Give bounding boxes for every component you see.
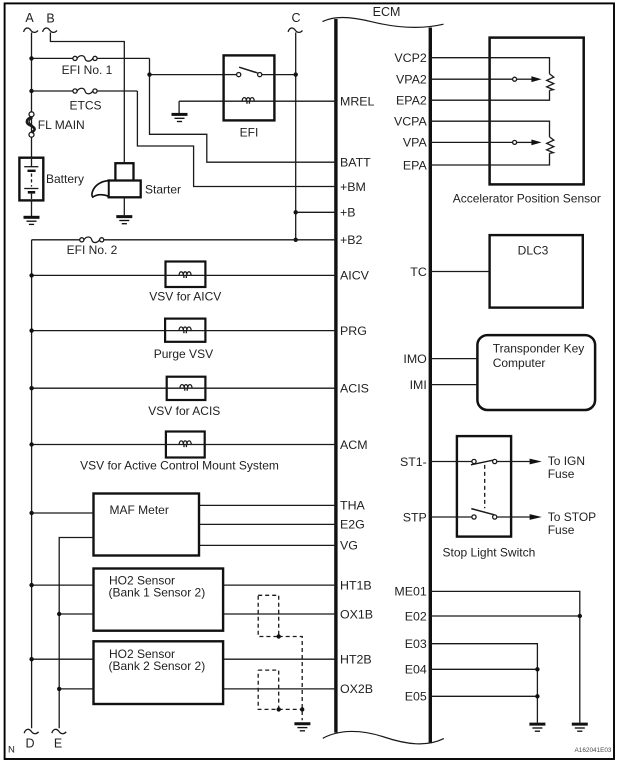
svg-text:VCP2: VCP2 bbox=[394, 51, 426, 65]
wire D rail to HO2-1 bbox=[32, 584, 94, 586]
HO2 Sensor Bank2 box bbox=[94, 641, 224, 704]
svg-text:To STOP: To STOP bbox=[548, 510, 596, 524]
svg-text:E05: E05 bbox=[405, 690, 427, 704]
wire OX2B row bbox=[223, 688, 336, 690]
wire ETCS to +BM bbox=[137, 91, 336, 187]
potentiometer 1 resistor bbox=[547, 74, 554, 91]
HO2 Sensor Bank1 box bbox=[94, 569, 224, 631]
starter crescent bbox=[92, 181, 109, 198]
svg-text:Purge VSV: Purge VSV bbox=[154, 347, 213, 361]
svg-text:MREL: MREL bbox=[340, 94, 375, 108]
svg-text:EFI: EFI bbox=[240, 125, 259, 139]
shield OX2B bbox=[258, 670, 279, 709]
svg-text:ECM: ECM bbox=[373, 5, 401, 19]
junction D rail / ACIS bbox=[29, 386, 33, 390]
fuse EFI No. 1 bbox=[73, 56, 77, 60]
wire A rail bbox=[31, 33, 33, 158]
wire VPA wiper 2 bbox=[430, 141, 512, 143]
wire B to starter bbox=[50, 33, 124, 164]
svg-text:VPA2: VPA2 bbox=[396, 73, 427, 87]
wire IMO row bbox=[430, 358, 477, 360]
fusible link FL MAIN bbox=[29, 112, 34, 117]
svg-text:Transponder Key: Transponder Key bbox=[493, 341, 585, 355]
junction D rail / PRG bbox=[29, 328, 33, 332]
junction D rail / MAF bbox=[29, 511, 33, 515]
svg-text:HT1B: HT1B bbox=[340, 578, 372, 592]
wire VPA2 wiper 1 bbox=[430, 78, 512, 80]
svg-text:+B2: +B2 bbox=[340, 233, 363, 247]
starter motor body box bbox=[109, 181, 141, 198]
svg-text:A: A bbox=[25, 11, 34, 25]
wire HT1B row bbox=[223, 584, 336, 586]
junction D rail / AICV bbox=[29, 273, 33, 277]
svg-text:Fuse: Fuse bbox=[548, 523, 575, 537]
svg-text:Stop Light Switch: Stop Light Switch bbox=[443, 546, 536, 560]
svg-text:MAF Meter: MAF Meter bbox=[110, 503, 169, 517]
shield OX1B bbox=[258, 595, 279, 636]
svg-text:TC: TC bbox=[410, 265, 427, 279]
svg-text:ME01: ME01 bbox=[394, 585, 426, 599]
battery B1 internals bbox=[31, 159, 33, 167]
wire D rail bbox=[31, 240, 33, 728]
svg-text:E04: E04 bbox=[405, 663, 427, 677]
wire ST1- to IGN fuse bbox=[497, 461, 530, 463]
svg-text:HT2B: HT2B bbox=[340, 653, 372, 667]
wire EPA from potentiometer 2 bbox=[430, 153, 549, 165]
wire TC row bbox=[430, 271, 489, 273]
wire EFI No.1 to BATT bbox=[150, 58, 336, 162]
svg-text:AICV: AICV bbox=[340, 269, 370, 283]
svg-text:E02: E02 bbox=[405, 609, 427, 623]
svg-text:Battery: Battery bbox=[46, 172, 84, 186]
switch ST1- bbox=[472, 459, 476, 463]
svg-text:ETCS: ETCS bbox=[69, 99, 101, 113]
svg-text:OX1B: OX1B bbox=[340, 607, 373, 621]
relay EFI coil bbox=[179, 100, 336, 102]
wire VCP2 to potentiometer 1 bbox=[430, 58, 549, 74]
Accelerator Position Sensor box bbox=[490, 38, 584, 185]
junction E05 bbox=[535, 694, 539, 698]
svg-text:D: D bbox=[25, 737, 34, 751]
svg-text:VSV for ACIS: VSV for ACIS bbox=[148, 404, 220, 418]
svg-text:E2G: E2G bbox=[340, 518, 365, 532]
svg-text:N: N bbox=[8, 745, 15, 756]
junction shield drain / shield2 bbox=[300, 707, 304, 711]
wiper arrow 1 bbox=[531, 76, 541, 82]
svg-text:VCPA: VCPA bbox=[394, 115, 428, 129]
svg-text:STP: STP bbox=[403, 510, 427, 524]
svg-text:+BM: +BM bbox=[340, 180, 366, 194]
svg-text:C: C bbox=[291, 11, 300, 25]
svg-text:ACIS: ACIS bbox=[340, 382, 369, 396]
wire E05 row bbox=[430, 695, 537, 697]
ECM right boundary line bbox=[429, 28, 432, 744]
fuse EFI No. 2 bbox=[80, 238, 84, 242]
wire STP to STOP fuse bbox=[497, 516, 530, 518]
wire EFI No.2 row bbox=[32, 239, 336, 241]
connector C bbox=[288, 11, 302, 32]
junction A / EFI No.1 bbox=[29, 56, 33, 60]
VSV for AICV box bbox=[166, 262, 206, 288]
relay EFI switch bbox=[224, 74, 237, 76]
junction E rail / HO2-1 bbox=[57, 612, 61, 616]
svg-text:Fuse: Fuse bbox=[548, 467, 575, 481]
ECM top break line bbox=[323, 17, 444, 27]
svg-text:ACM: ACM bbox=[340, 438, 368, 452]
ECM bottom break line bbox=[323, 731, 444, 743]
svg-text:+B: +B bbox=[340, 206, 356, 220]
svg-text:IMI: IMI bbox=[410, 378, 427, 392]
DLC3 box bbox=[490, 235, 583, 308]
wire IMI row bbox=[430, 384, 477, 386]
svg-text:VG: VG bbox=[340, 539, 358, 553]
svg-text:OX2B: OX2B bbox=[340, 682, 373, 696]
junction E04 bbox=[535, 667, 539, 671]
svg-text:(Bank 2 Sensor 2): (Bank 2 Sensor 2) bbox=[109, 659, 206, 673]
svg-text:BATT: BATT bbox=[340, 156, 371, 170]
wire starter to ground bbox=[123, 197, 125, 215]
svg-text:PRG: PRG bbox=[340, 324, 367, 338]
wire MAF THA row bbox=[199, 504, 336, 506]
svg-text:A162041E03: A162041E03 bbox=[575, 747, 612, 754]
wire AICV row bbox=[32, 274, 336, 276]
junction C rail / +B2 bbox=[294, 238, 298, 242]
ground E03/E04/E05 bbox=[529, 724, 545, 731]
fuse ETCS bbox=[73, 89, 77, 93]
junction C rail / +B bbox=[294, 210, 298, 214]
wire VCPA to potentiometer 2 bbox=[430, 121, 549, 137]
junction D rail / ACM bbox=[29, 442, 33, 446]
MAF Meter box bbox=[94, 494, 200, 556]
svg-text:(Bank 1 Sensor 2): (Bank 1 Sensor 2) bbox=[109, 585, 206, 599]
potentiometer 2 resistor bbox=[547, 137, 554, 154]
svg-text:EFI No. 1: EFI No. 1 bbox=[62, 63, 113, 77]
svg-text:VPA: VPA bbox=[403, 136, 428, 150]
battery B1 box bbox=[19, 158, 43, 201]
switch STP bbox=[472, 515, 476, 519]
wire E03 to ground bbox=[430, 644, 537, 723]
svg-text:EFI No. 2: EFI No. 2 bbox=[67, 243, 118, 257]
wire relay switch feed bbox=[150, 74, 224, 76]
wire STP row bbox=[430, 516, 472, 518]
VSV for Active Control Mount System box bbox=[166, 432, 205, 458]
VSV for ACIS box bbox=[167, 377, 206, 400]
wire EFI No.1 row bbox=[32, 57, 150, 59]
svg-text:E03: E03 bbox=[405, 637, 427, 651]
svg-text:Starter: Starter bbox=[145, 182, 181, 196]
wire E rail to HO2-2 bbox=[59, 688, 93, 690]
connector B bbox=[43, 12, 57, 33]
wire MAF VG row bbox=[199, 544, 336, 546]
VSV for AICV coil bbox=[179, 272, 191, 278]
wire E rail bbox=[59, 538, 93, 729]
Stop Light Switch box bbox=[457, 436, 511, 536]
junction E02 / ME01 rail bbox=[578, 614, 582, 618]
svg-text:Accelerator Position Sensor: Accelerator Position Sensor bbox=[453, 191, 601, 205]
Transponder Key Computer box bbox=[477, 335, 595, 410]
wire E02 row bbox=[430, 615, 580, 617]
switch link dashed bbox=[484, 465, 486, 508]
junction D rail / HO2-1 bbox=[29, 583, 33, 587]
connector E bbox=[52, 729, 66, 750]
wire OX1B row bbox=[223, 613, 336, 615]
junction A / ETCS bbox=[29, 89, 33, 93]
ground ME01 bbox=[572, 724, 588, 731]
svg-text:E: E bbox=[54, 737, 62, 751]
wire D rail to MAF bbox=[32, 512, 94, 514]
wire relay coil to ground bbox=[178, 101, 180, 113]
wiper arrow 2 bbox=[531, 140, 541, 146]
wire ST1- row bbox=[430, 461, 472, 463]
svg-text:IMO: IMO bbox=[403, 352, 427, 366]
svg-text:THA: THA bbox=[340, 499, 366, 513]
junction EFI No.1 / relay switch bbox=[147, 72, 151, 76]
svg-text:EPA2: EPA2 bbox=[396, 94, 427, 108]
wire PRG row bbox=[32, 330, 336, 332]
wire battery to ground bbox=[31, 200, 33, 216]
arrow to IGN fuse bbox=[530, 459, 542, 465]
wire HT2B row bbox=[223, 658, 336, 660]
Purge VSV box bbox=[165, 319, 205, 342]
svg-text:ST1-: ST1- bbox=[400, 455, 427, 469]
ECM left boundary line bbox=[334, 19, 337, 733]
wire D rail to HO2-2 bbox=[32, 658, 94, 660]
wire C rail bbox=[295, 33, 297, 240]
wire E rail to HO2-1 bbox=[59, 613, 93, 615]
junction relay output / C rail bbox=[294, 72, 298, 76]
ground EFI relay bbox=[172, 114, 188, 121]
svg-text:FL MAIN: FL MAIN bbox=[38, 118, 85, 132]
wire ACIS row bbox=[32, 387, 336, 389]
svg-text:DLC3: DLC3 bbox=[518, 244, 549, 258]
relay EFI box bbox=[224, 55, 275, 120]
wire ME01 to ground bbox=[430, 591, 580, 722]
wire ETCS row bbox=[32, 90, 138, 92]
connector D bbox=[24, 729, 38, 750]
connector A bbox=[24, 11, 38, 32]
VSV for ACIS coil bbox=[180, 385, 192, 391]
wire MAF E2G row bbox=[199, 523, 336, 525]
Purge VSV coil bbox=[179, 327, 191, 333]
svg-text:EPA: EPA bbox=[403, 158, 428, 172]
svg-text:To IGN: To IGN bbox=[548, 454, 585, 468]
junction E rail / HO2-2 bbox=[57, 687, 61, 691]
ground starter bbox=[116, 217, 132, 224]
starter motor pinion box bbox=[115, 163, 133, 181]
arrow to STOP fuse bbox=[530, 514, 542, 520]
ground shield bbox=[294, 724, 310, 731]
wire EPA2 from potentiometer 1 bbox=[430, 90, 549, 100]
svg-text:B: B bbox=[46, 12, 54, 26]
ground battery bbox=[24, 217, 40, 224]
wire E04 row bbox=[430, 668, 537, 670]
svg-text:VSV for Active Control Mount S: VSV for Active Control Mount System bbox=[80, 459, 279, 473]
svg-text:Computer: Computer bbox=[493, 356, 546, 370]
wire ACM row bbox=[32, 444, 336, 446]
junction D rail / HO2-2 bbox=[29, 657, 33, 661]
wire shield drain bbox=[279, 637, 303, 721]
wire +B row bbox=[296, 211, 336, 213]
junction shield2 bottom bbox=[277, 707, 281, 711]
junction shield1 drain bbox=[277, 634, 281, 638]
svg-text:VSV for AICV: VSV for AICV bbox=[149, 290, 221, 304]
VSV for ACM coil bbox=[179, 441, 191, 447]
